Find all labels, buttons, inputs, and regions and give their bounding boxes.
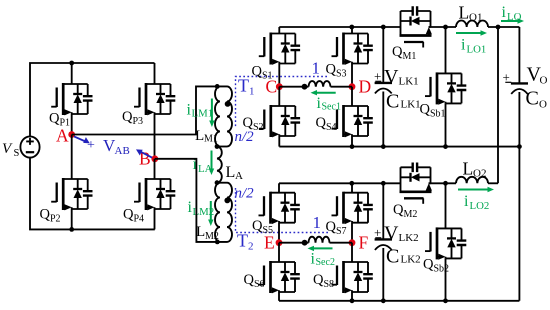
junction bottom rail / QP2 source — [69, 227, 74, 232]
svg-text:Q: Q — [49, 111, 60, 127]
svg-text:AB: AB — [115, 145, 130, 157]
svg-text:Q: Q — [326, 62, 337, 78]
svg-text:O: O — [539, 99, 547, 111]
svg-text:M1: M1 — [204, 134, 218, 145]
svg-text:L: L — [195, 128, 204, 144]
label QM2 — [393, 202, 417, 220]
svg-text:Q: Q — [392, 44, 403, 60]
node B — [139, 149, 158, 169]
svg-text:n/2: n/2 — [235, 129, 255, 145]
T1 primary polarity dot — [225, 101, 231, 107]
transistor QP1 — [51, 83, 92, 115]
junction top rail / QP1 drain — [69, 61, 74, 66]
svg-text:Q: Q — [252, 218, 263, 234]
transformer T2 secondary winding 1 turn — [309, 237, 330, 243]
transistor QP4 — [134, 178, 175, 210]
label iLO2 current annotation — [458, 187, 494, 212]
T2 primary polarity dot — [224, 198, 230, 204]
svg-text:LO1: LO1 — [467, 44, 487, 56]
wire CO positive lead — [518, 27, 520, 83]
svg-text:i: i — [502, 4, 507, 21]
svg-text:Q: Q — [252, 64, 263, 80]
svg-text:T: T — [237, 231, 248, 251]
label LO1 — [459, 3, 483, 24]
label +VLK2 — [374, 223, 419, 245]
svg-text:P4: P4 — [134, 214, 145, 225]
wire top bar LM2/T2 primary — [217, 182, 227, 184]
transformer T1 secondary winding 1 turn — [309, 81, 331, 87]
wire QM1 source to LO1 — [429, 26, 457, 28]
wire QM2 source to LO2 — [429, 182, 457, 184]
label QS6 — [244, 272, 265, 290]
label CLK2 — [386, 246, 421, 268]
wire bottom bar LM1/T1 primary — [217, 146, 227, 148]
svg-text:Q: Q — [123, 207, 134, 223]
svg-text:Q: Q — [326, 219, 337, 235]
wire QS1 source to node C — [278, 64, 280, 87]
svg-text:T: T — [238, 76, 249, 96]
wire node E to T2 secondary — [279, 242, 309, 244]
label QP2 — [40, 207, 61, 225]
svg-text:C: C — [386, 91, 399, 113]
wire secondary bridge 2 top rail — [279, 182, 401, 184]
svg-text:L: L — [463, 159, 474, 179]
wire QS4 source stub — [351, 136, 353, 147]
wire QSb1 drain stub — [445, 27, 447, 73]
label QS2 — [243, 115, 264, 133]
wire LO2 to output riser — [488, 182, 498, 184]
svg-text:L: L — [196, 224, 205, 240]
transistor QS3 — [332, 33, 373, 65]
svg-text:C: C — [386, 246, 399, 268]
junction rail2 / QS7 leg — [349, 181, 354, 186]
junction rail2 bottom / CLK2 branch — [381, 298, 386, 303]
label iLA current annotation — [193, 151, 215, 176]
wire QS6 drain stub — [278, 243, 280, 262]
wire QS5 drain stub — [278, 183, 280, 192]
wire QSb1 source stub — [445, 103, 447, 146]
label LA — [226, 164, 244, 182]
svg-text:L: L — [459, 3, 470, 23]
capacitor CLK2 — [375, 239, 392, 250]
wire QS7 drain stub — [351, 183, 353, 192]
wire QP1 source to node A — [71, 114, 73, 135]
wire node C to T1 secondary — [279, 86, 308, 88]
wire QS1 drain stub — [278, 27, 280, 34]
svg-text:n/2: n/2 — [235, 186, 255, 202]
svg-text:1: 1 — [249, 86, 255, 98]
transistor QS2 — [259, 105, 300, 137]
svg-text:S4: S4 — [326, 122, 337, 133]
wire QS8 drain stub — [351, 243, 353, 262]
wire QS2 source stub — [278, 136, 280, 147]
wire QS7 source to node F — [351, 223, 353, 243]
svg-text:LO2: LO2 — [470, 200, 490, 212]
junction rail2 / CLK2 branch — [381, 181, 386, 186]
inductor LA leakage — [217, 147, 222, 183]
wire QS3 drain stub — [351, 27, 353, 34]
wire QSb2 source stub — [445, 258, 447, 300]
wire VS negative lead and bottom rail — [30, 157, 155, 229]
svg-text:+: + — [87, 138, 95, 153]
label QS5 — [252, 218, 273, 236]
label LO2 — [463, 159, 487, 180]
junction rail1 bottom / QSb1 leg — [443, 144, 448, 149]
svg-text:LM1: LM1 — [192, 108, 214, 120]
wire QP1 drain stub — [71, 63, 73, 84]
svg-text:Sec1: Sec1 — [322, 102, 341, 113]
svg-text:Sec2: Sec2 — [316, 257, 335, 268]
transistor QP3 — [134, 83, 175, 115]
wire QS5 source to node E — [278, 223, 280, 243]
node E — [264, 233, 282, 253]
label QS1 — [252, 64, 273, 82]
svg-text:M2: M2 — [404, 209, 418, 220]
junction top of LM1 / T1 primary — [215, 84, 220, 89]
T2 secondary polarity dot — [302, 240, 308, 246]
wire secondary bridge 1 bottom rail — [279, 146, 519, 148]
label QS3 — [326, 62, 347, 80]
junction rail2 bottom / QSb2 leg — [443, 298, 448, 303]
label QSb1 — [420, 102, 446, 120]
label iLO1 current annotation — [456, 30, 487, 55]
junction LM1 bottom / LA top — [215, 144, 220, 149]
label CLK1 — [386, 91, 421, 113]
T1 secondary polarity dot — [302, 84, 308, 90]
junction rail1 bottom / CO branch — [517, 144, 522, 149]
svg-text:C: C — [266, 77, 278, 97]
transformer T1 primary winding n/2 — [227, 86, 232, 146]
label CO — [526, 88, 548, 111]
svg-text:S7: S7 — [336, 226, 347, 237]
wire QS4 drain stub — [351, 87, 353, 106]
svg-text:O2: O2 — [473, 168, 486, 180]
wire node A to magnetizing branch riser — [72, 86, 227, 134]
wire QS2 drain stub — [278, 87, 280, 106]
label QP3 — [122, 109, 143, 127]
label QP4 — [123, 207, 144, 225]
svg-text:V: V — [384, 66, 399, 88]
wire T2 secondary to node F — [330, 242, 353, 244]
junction rail1 / QS3 leg — [349, 25, 354, 30]
svg-text:Sb2: Sb2 — [434, 264, 450, 275]
svg-text:2: 2 — [248, 241, 254, 253]
wire secondary bridge 1 top rail — [279, 26, 400, 28]
label T2 — [237, 231, 254, 253]
svg-text:Q: Q — [40, 207, 51, 223]
svg-text:S: S — [14, 148, 20, 159]
svg-text:LK1: LK1 — [401, 99, 421, 111]
transistor QS5 — [259, 192, 300, 224]
svg-text:Q: Q — [243, 115, 254, 131]
wire QP2 source stub — [71, 209, 73, 229]
label iSec1 current annotation — [311, 90, 341, 113]
node D — [349, 77, 372, 97]
svg-text:F: F — [359, 233, 369, 253]
svg-text:i: i — [464, 193, 469, 210]
label iLM2 current annotation — [188, 199, 215, 226]
svg-text:LO: LO — [507, 11, 522, 23]
svg-text:LK2: LK2 — [399, 232, 419, 244]
junction LM2 bottom bar — [215, 240, 220, 245]
svg-text:Q: Q — [420, 102, 431, 118]
wire QP2 drain stub — [71, 135, 73, 180]
svg-text:P2: P2 — [50, 214, 61, 225]
junction QM1 / QSb1 / LO1 — [443, 25, 448, 30]
wire CLK1 bottom lead — [382, 92, 384, 147]
label iLO current annotation — [501, 4, 524, 24]
svg-text:L: L — [226, 164, 236, 181]
svg-text:S8: S8 — [324, 279, 335, 290]
node F — [349, 233, 369, 253]
svg-text:Q: Q — [244, 272, 255, 288]
wire QP3 drain stub — [154, 63, 156, 84]
label +VO — [503, 64, 548, 87]
wire LO1 to output node — [488, 26, 519, 28]
svg-text:Sb1: Sb1 — [430, 109, 446, 120]
svg-text:O1: O1 — [469, 12, 482, 24]
inductor LO2 — [456, 177, 488, 184]
label QP1 — [49, 111, 70, 129]
wire QP4 source stub — [154, 209, 156, 229]
wire CLK2 bottom lead — [382, 248, 384, 301]
wire secondary bridge 2 bottom rail — [279, 300, 519, 302]
transistor QSb2 — [425, 227, 466, 259]
junction QM2 / QSb2 / LO2 — [443, 181, 448, 186]
label T1 — [238, 76, 255, 98]
transistor QS8 — [332, 261, 373, 293]
label +VAB with measurement arrows — [74, 136, 152, 158]
label LM1 — [195, 128, 218, 145]
svg-text:1: 1 — [313, 213, 322, 232]
transistor QS6 — [259, 261, 300, 293]
label QS8 — [313, 272, 334, 290]
svg-text:V: V — [384, 223, 399, 245]
label LM2 — [196, 224, 219, 242]
svg-text:Q: Q — [313, 272, 324, 288]
label iLM1 current annotation — [187, 99, 215, 128]
inductor LM2 magnetizing winding — [215, 183, 220, 242]
capacitor CLK1 — [375, 83, 392, 94]
svg-text:C: C — [526, 88, 539, 110]
svg-text:i: i — [461, 37, 466, 54]
transistor QP2 — [51, 178, 92, 210]
transistor QS7 — [332, 192, 373, 224]
wire node B to LM2 bottom bar — [155, 159, 227, 242]
wire T1 secondary to node D — [331, 86, 353, 88]
wire QSb2 drain stub — [445, 183, 447, 228]
wire CLK1 top lead — [382, 27, 384, 83]
transistor QM1 clamp switch — [400, 6, 432, 47]
transistor QS1 — [259, 33, 300, 65]
svg-text:LK2: LK2 — [401, 254, 421, 266]
svg-text:S6: S6 — [254, 279, 265, 290]
junction LO1 / LO2 riser — [496, 25, 501, 30]
label VS — [2, 141, 20, 159]
transformer T1 boundary dashed box — [236, 77, 328, 128]
wire CLK2 top lead — [382, 183, 384, 239]
junction rail1 bottom / QS4 leg — [350, 144, 355, 149]
svg-text:M1: M1 — [403, 51, 417, 62]
wire QP3 source to node B — [154, 114, 156, 159]
svg-text:S2: S2 — [253, 122, 264, 133]
svg-text:Q: Q — [122, 109, 133, 125]
svg-text:O: O — [540, 75, 548, 87]
transistor QSb1 — [425, 72, 466, 104]
svg-text:LK1: LK1 — [399, 76, 419, 88]
label QS7 — [326, 219, 347, 237]
label QS4 — [316, 115, 337, 133]
label QSb2 — [423, 257, 449, 275]
node C — [266, 77, 283, 97]
junction rail2 bottom / QS8 leg — [350, 298, 355, 303]
wire QS3 source to node D — [351, 64, 353, 87]
svg-text:P3: P3 — [133, 116, 144, 127]
wire QP4 drain stub — [154, 159, 156, 179]
wire QS6 source stub — [278, 292, 280, 301]
inductor LM1 magnetizing winding — [215, 86, 220, 146]
label +VLK1 — [374, 66, 419, 88]
svg-text:D: D — [359, 77, 372, 97]
wire QS8 source stub — [351, 292, 353, 301]
svg-text:Q: Q — [423, 257, 434, 273]
label QM1 — [392, 44, 416, 62]
svg-text:E: E — [264, 233, 275, 253]
transformer T2 primary winding n/2 — [227, 183, 232, 242]
svg-text:A: A — [56, 126, 69, 146]
label iSec2 current annotation — [308, 246, 335, 268]
inductor LO1 — [456, 20, 488, 27]
capacitor CO — [511, 83, 528, 94]
svg-text:Q: Q — [393, 202, 404, 218]
wire VS positive lead and top rail — [30, 63, 155, 137]
junction LA bottom / LM2 top — [215, 180, 220, 185]
svg-text:S3: S3 — [336, 69, 347, 80]
transistor QM2 clamp switch — [400, 163, 432, 204]
transistor QS4 — [332, 105, 373, 137]
node A — [56, 126, 75, 146]
svg-text:1: 1 — [312, 59, 321, 78]
svg-text:A: A — [235, 170, 243, 182]
junction rail1 bottom / CLK1 branch — [381, 144, 386, 149]
voltage source VS — [20, 136, 39, 157]
transformer T2 boundary dashed box — [236, 188, 330, 233]
wire CO bottom lead to bottom rail — [518, 92, 520, 301]
junction rail1 / CLK1 branch — [381, 25, 386, 30]
wire output riser joining LO1 and LO2 — [497, 27, 499, 183]
svg-text:Q: Q — [316, 115, 327, 131]
